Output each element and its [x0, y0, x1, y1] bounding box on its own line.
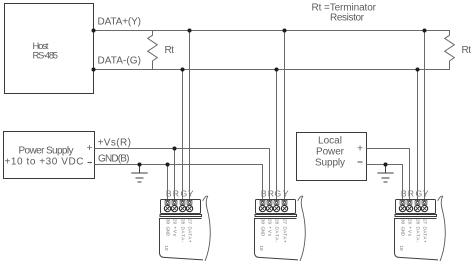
svg-text:Rt: Rt — [462, 45, 472, 56]
svg-text:G: G — [180, 189, 187, 199]
svg-text:DATA-: DATA- — [416, 227, 421, 244]
svg-text:DATA+(Y): DATA+(Y) — [98, 17, 142, 28]
module 3 terminal screws — [399, 205, 427, 211]
module 3 body outline — [395, 219, 439, 260]
svg-text:RS-485: RS-485 — [33, 50, 59, 61]
module 1 terminal screws — [164, 205, 192, 211]
module 2 terminal screws — [259, 205, 287, 211]
svg-text:+Vs(R): +Vs(R) — [98, 138, 132, 149]
svg-text:Local: Local — [318, 136, 342, 147]
svg-text:GND: GND — [401, 227, 406, 237]
module 2 body outline — [255, 219, 299, 260]
module 1 wire clamps — [165, 200, 192, 204]
node junction 12 — [384, 163, 388, 167]
module 2 mounting band — [255, 215, 297, 217]
svg-text:R: R — [408, 189, 414, 199]
node junction 11 — [138, 163, 142, 167]
wire module3 G — [417, 70, 419, 203]
host box — [5, 4, 94, 94]
wire module1 G — [182, 70, 184, 203]
svg-text:+Vs: +Vs — [268, 227, 273, 237]
wire module2 G — [276, 70, 278, 203]
wire GND — [95, 165, 263, 203]
svg-text:30: 30 — [261, 219, 266, 224]
svg-text:B: B — [261, 189, 267, 199]
svg-text:B: B — [401, 189, 407, 199]
module 2 cut-away curve — [298, 196, 306, 261]
svg-text:28: 28 — [181, 219, 186, 224]
node junction 4 — [283, 29, 287, 33]
svg-text:29: 29 — [268, 219, 273, 224]
svg-text:+Vs: +Vs — [408, 227, 413, 237]
svg-text:GND: GND — [166, 227, 171, 237]
svg-text:27: 27 — [423, 219, 428, 224]
node junction 3 — [188, 29, 192, 33]
module 3 mounting band — [395, 215, 437, 217]
node junction 2 — [92, 68, 96, 72]
svg-text:G: G — [415, 189, 422, 199]
svg-text:Rt: Rt — [165, 45, 175, 56]
svg-text:30: 30 — [401, 219, 406, 224]
svg-text:DATA+: DATA+ — [188, 227, 193, 243]
power supply - terminal — [88, 162, 93, 164]
local power supply box — [297, 133, 367, 181]
module 2 terminal block — [256, 200, 296, 214]
svg-text:R: R — [173, 189, 179, 199]
svg-text:27: 27 — [283, 219, 288, 224]
module 2 wire clamps — [260, 200, 287, 204]
node junction 5 — [423, 29, 427, 33]
svg-text:DATA+: DATA+ — [423, 227, 428, 243]
svg-text:27: 27 — [188, 219, 193, 224]
module 3 wire clamps — [400, 200, 427, 204]
wire module3 Y — [424, 31, 426, 203]
resistor Rt2 right (terminator) — [445, 31, 455, 70]
svg-text:DATA+: DATA+ — [283, 227, 288, 243]
wire module1 B — [167, 165, 169, 203]
svg-text:+: + — [87, 142, 93, 154]
resistor Rt1 left (terminator) — [148, 31, 158, 70]
svg-text:10: 10 — [164, 246, 169, 251]
node junction 7 — [275, 68, 279, 72]
svg-text:Power Supply: Power Supply — [19, 146, 74, 157]
svg-text:Y: Y — [283, 189, 289, 199]
module 3 cut-away curve — [438, 196, 446, 261]
svg-text:DATA-: DATA- — [275, 227, 280, 244]
module 1 mounting band — [160, 215, 202, 217]
svg-text:28: 28 — [275, 219, 280, 224]
svg-text:Supply: Supply — [315, 158, 345, 169]
svg-text:29: 29 — [173, 219, 178, 224]
ground symbol right — [377, 165, 393, 183]
wire +Vs — [95, 149, 270, 203]
power supply box — [4, 132, 95, 179]
svg-text:28: 28 — [416, 219, 421, 224]
svg-text:+Vs: +Vs — [173, 227, 178, 237]
svg-text:Power: Power — [316, 147, 345, 158]
svg-text:10: 10 — [259, 246, 264, 251]
wire local + to module3 R — [367, 149, 410, 203]
wire module1 Y — [189, 31, 191, 203]
node junction 6 — [181, 68, 185, 72]
svg-text:GND(B): GND(B) — [98, 154, 130, 165]
wire DATA+ bus — [94, 30, 451, 32]
svg-text:Y: Y — [188, 189, 194, 199]
svg-text:G: G — [274, 189, 281, 199]
wire module2 Y — [284, 31, 286, 203]
node junction 1 — [92, 29, 96, 33]
svg-text:DATA-(G): DATA-(G) — [98, 56, 142, 67]
module 3 terminal block — [396, 200, 436, 214]
module 1 body outline — [160, 219, 204, 260]
svg-text:Resistor: Resistor — [330, 13, 365, 24]
svg-text:B: B — [166, 189, 172, 199]
svg-text:10: 10 — [399, 246, 404, 251]
node junction 10 — [166, 163, 170, 167]
wire local - to module3 B — [367, 165, 403, 203]
svg-text:R: R — [268, 189, 274, 199]
svg-text:Y: Y — [423, 189, 429, 199]
module 1 cut-away curve — [203, 196, 211, 261]
node junction 9 — [173, 147, 177, 151]
module 1 terminal block — [161, 200, 201, 214]
svg-text:30: 30 — [166, 219, 171, 224]
svg-text:+10 to +30 VDC: +10 to +30 VDC — [5, 157, 84, 168]
ground symbol left — [131, 165, 147, 183]
wire DATA- bus — [94, 69, 451, 71]
svg-text:DATA-: DATA- — [181, 227, 186, 244]
wire module1 R — [174, 149, 176, 203]
svg-text:+: + — [357, 143, 363, 155]
svg-text:29: 29 — [408, 219, 413, 224]
node junction 8 — [416, 68, 420, 72]
local - terminal — [358, 161, 363, 163]
svg-text:GND: GND — [261, 227, 266, 237]
